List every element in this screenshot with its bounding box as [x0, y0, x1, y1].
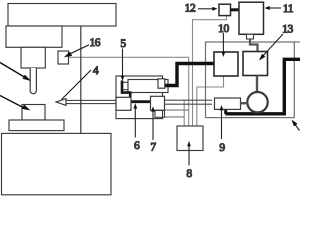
valve spool	[128, 80, 168, 93]
leader arrow from left edge to specimen	[0, 96, 27, 110]
wire from box 12 down-left-down to box 8	[193, 16, 227, 126]
step under right port box	[155, 110, 165, 117]
actuator cylinder	[21, 47, 45, 68]
label 13 leader	[262, 34, 284, 58]
computer box 11	[239, 2, 264, 34]
machine base	[2, 133, 112, 194]
wire from box 10 to box 8	[197, 76, 224, 126]
label 6 leader	[134, 107, 136, 138]
label 16 leader	[70, 45, 89, 54]
machine crossbeam	[8, 4, 116, 27]
svg-text:9: 9	[219, 142, 225, 154]
controller box 12	[219, 4, 231, 15]
wire vertical to box 8	[183, 100, 185, 126]
pump circle	[247, 92, 267, 112]
spool end block	[158, 79, 165, 88]
valve bottom-left port box	[116, 97, 131, 110]
valve spool left stub	[123, 82, 129, 89]
label 8 leader	[188, 145, 190, 166]
valve internal thick path	[122, 81, 130, 102]
pipe pair from valve to box 9	[165, 99, 213, 101]
label 10 leader	[222, 33, 224, 54]
corner leader arrow bottom right	[294, 123, 300, 131]
thick connector 12-11	[231, 8, 240, 11]
svg-text:12: 12	[185, 3, 196, 15]
thick pipe right side loop	[225, 59, 300, 114]
label 12 arrow	[198, 8, 214, 10]
zigzag wire 11 to 13	[250, 39, 258, 52]
thick stub to box 9	[224, 109, 227, 115]
valve box 13	[243, 52, 268, 76]
wire 16-box to data box 8 (horizontal y57.3 then down)	[69, 57, 189, 126]
machine right column	[80, 26, 82, 133]
coupling stub to pump	[241, 102, 248, 104]
svg-text:10: 10	[218, 23, 229, 35]
svg-text:16: 16	[89, 37, 100, 49]
sensor box 16	[58, 51, 69, 64]
stem 13 to pump	[256, 76, 258, 93]
pipe pair from valve to left (toward specimen)	[66, 99, 117, 101]
leader arrow from left edge to piston rod	[0, 63, 29, 80]
motor box 9	[215, 98, 241, 109]
valve thick bar	[127, 100, 151, 103]
label 9 leader	[221, 109, 223, 140]
svg-text:7: 7	[150, 141, 156, 153]
label 11 arrow	[269, 7, 282, 9]
valve assembly outer box	[116, 76, 163, 119]
data acquisition box 8	[177, 126, 203, 151]
upper crosshead block	[6, 26, 62, 47]
label 5 leader	[122, 49, 124, 78]
enclosure around hydraulic power unit	[206, 42, 295, 118]
svg-text:4: 4	[93, 65, 99, 77]
valve bottom-right port box	[151, 96, 165, 110]
thick pipe valve to box 10	[163, 64, 214, 86]
label 7 leader	[152, 110, 154, 141]
wire from valve right port going right	[165, 109, 189, 111]
servo box 10	[214, 52, 238, 76]
connector block under box 11	[247, 34, 254, 39]
svg-text:8: 8	[186, 168, 192, 180]
svg-text:6: 6	[134, 140, 140, 152]
open arrowhead at left end of pipe	[56, 99, 66, 106]
label 4 leader	[62, 70, 92, 100]
wire from valve bottom step to box 8	[165, 116, 185, 118]
piston rod	[30, 68, 36, 94]
specimen block	[22, 105, 45, 121]
svg-text:11: 11	[283, 3, 294, 15]
work table	[9, 120, 64, 131]
svg-text:5: 5	[120, 38, 126, 50]
svg-text:13: 13	[282, 24, 293, 36]
